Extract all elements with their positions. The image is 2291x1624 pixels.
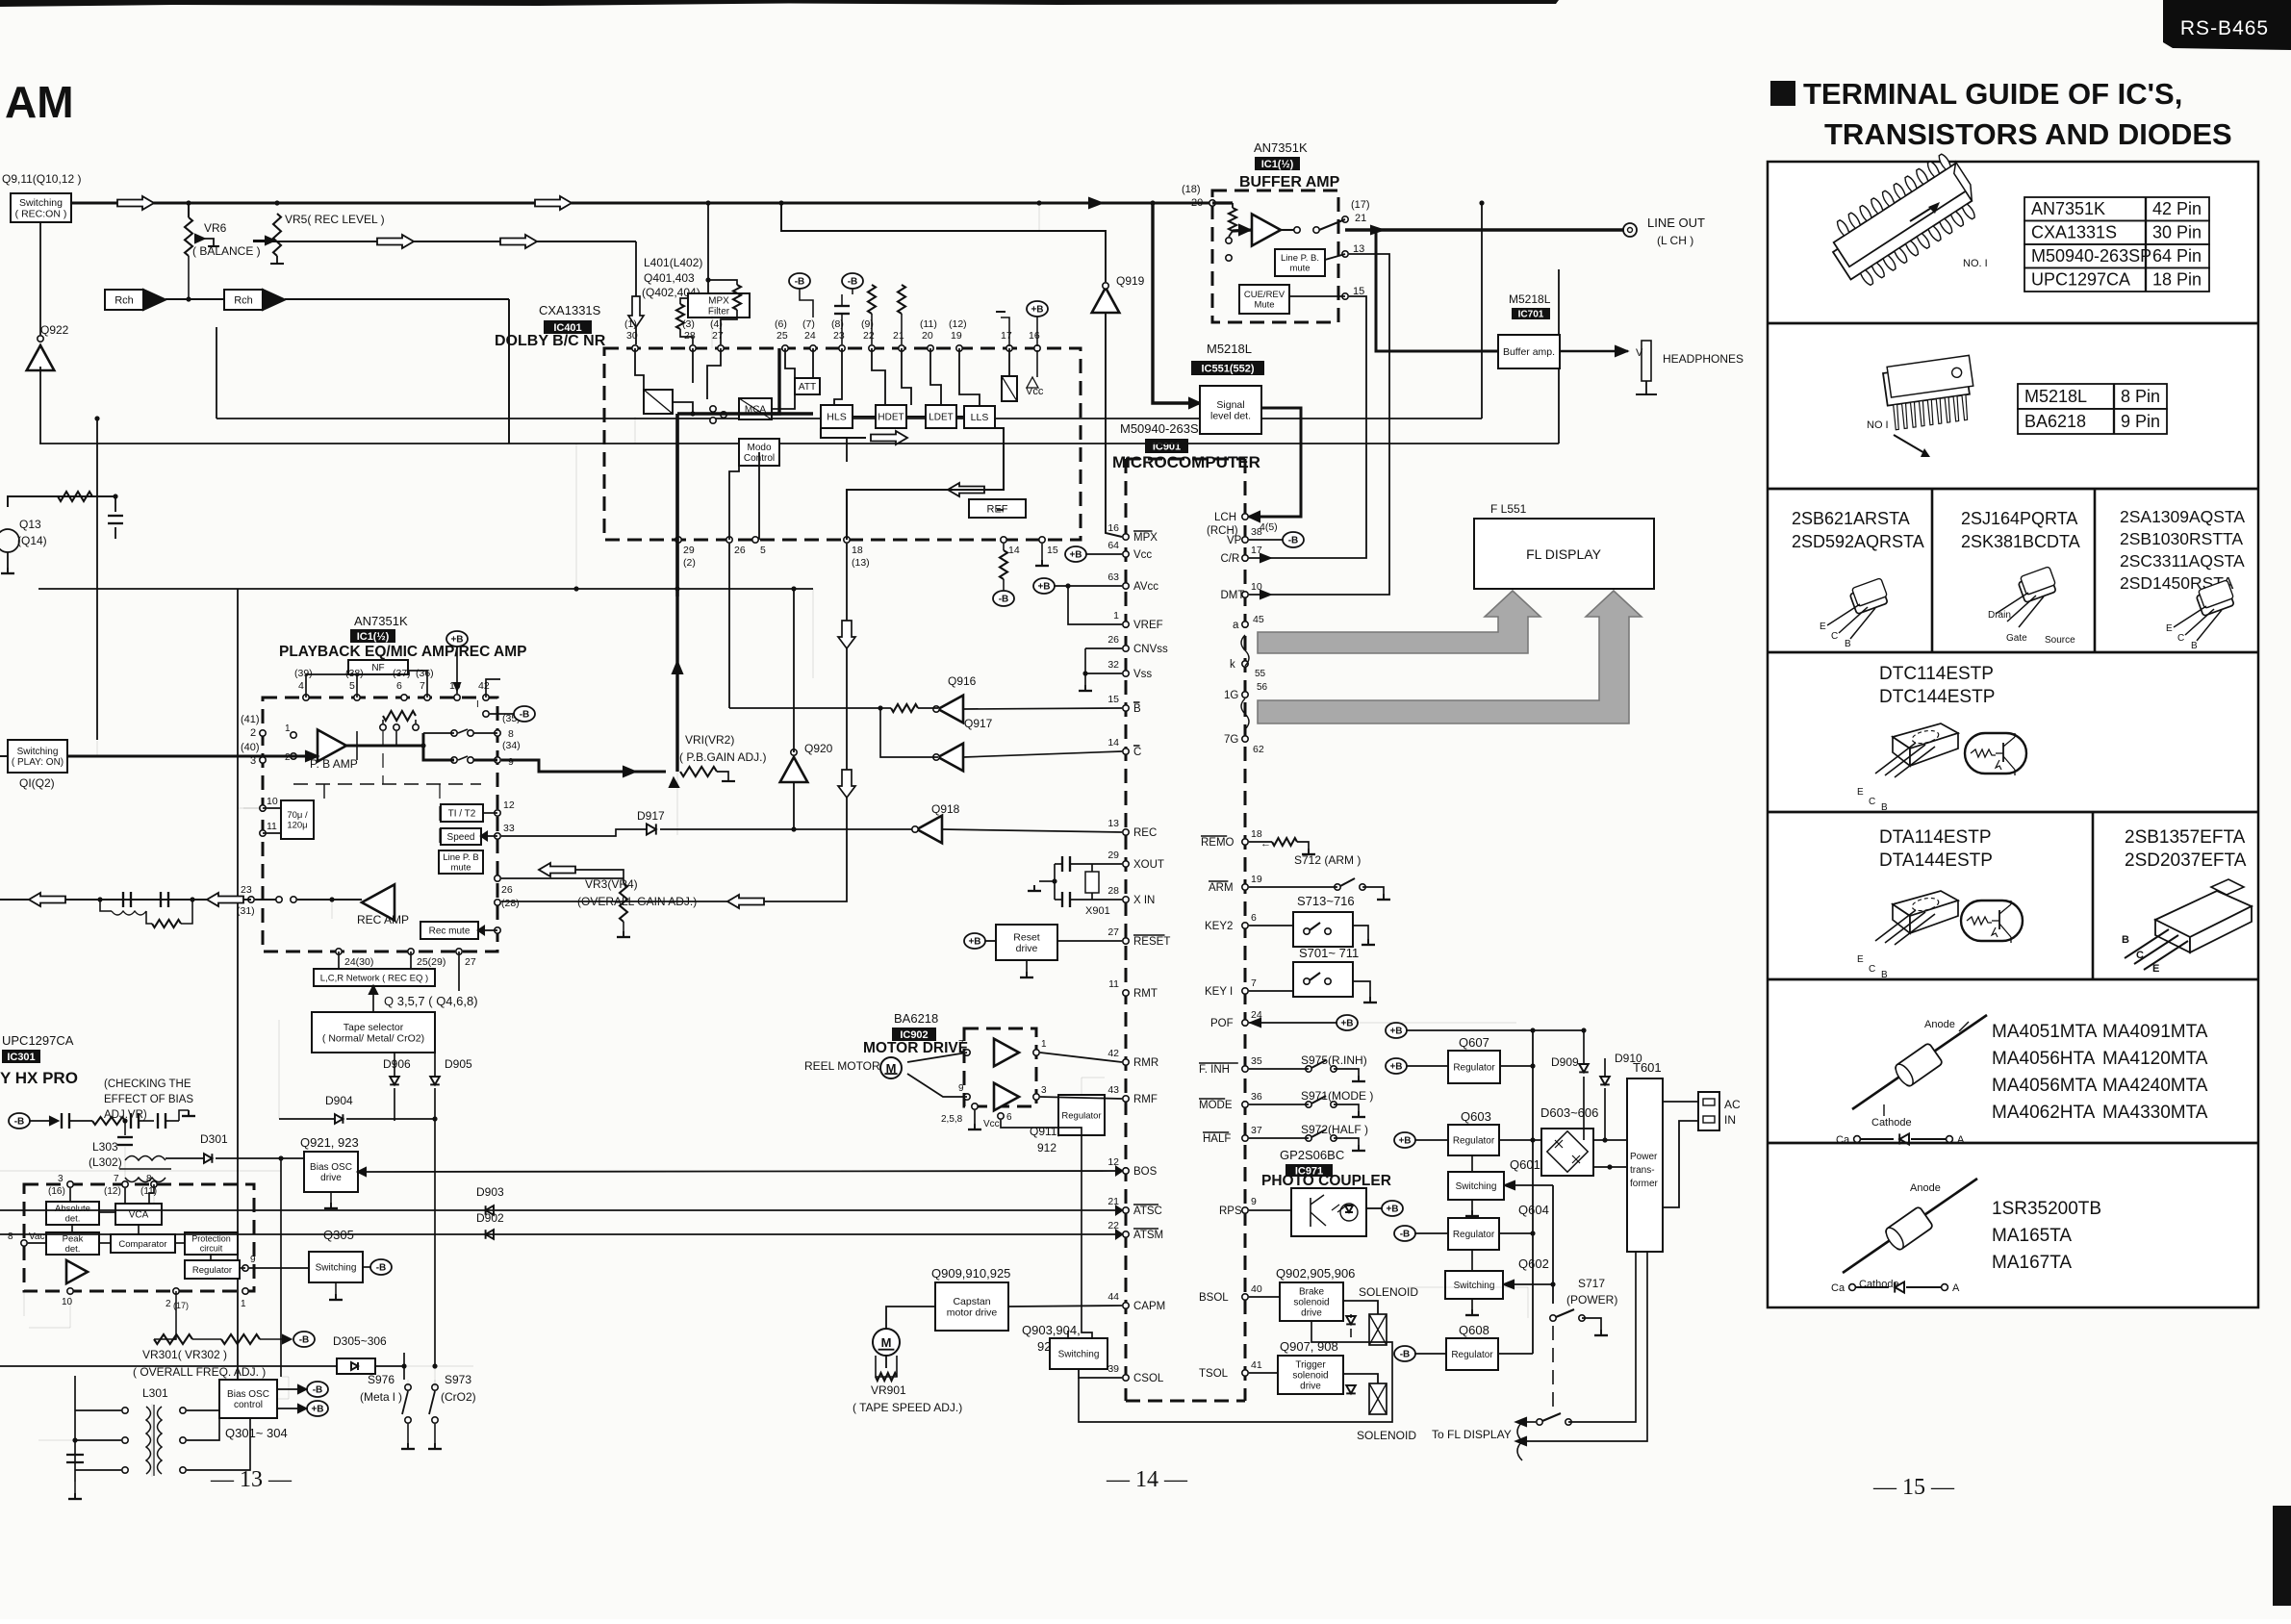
svg-text:CSOL: CSOL bbox=[1133, 1373, 1164, 1384]
svg-text:M5218L: M5218L bbox=[2024, 387, 2087, 406]
svg-text:D905: D905 bbox=[445, 1057, 472, 1071]
svg-text:DTA114ESTP: DTA114ESTP bbox=[1879, 827, 1992, 848]
svg-text:MA4120MTA: MA4120MTA bbox=[2102, 1049, 2208, 1069]
svg-text:Source: Source bbox=[2045, 635, 2075, 646]
svg-text:19: 19 bbox=[1251, 874, 1262, 885]
svg-text:B: B bbox=[1881, 970, 1888, 980]
svg-text:Trigger: Trigger bbox=[1295, 1360, 1326, 1371]
svg-text:Tape selector: Tape selector bbox=[344, 1022, 404, 1033]
svg-text:38: 38 bbox=[1251, 526, 1262, 538]
svg-text:26: 26 bbox=[1107, 634, 1119, 646]
svg-text:DMT: DMT bbox=[1221, 590, 1245, 601]
svg-text:M5218L: M5218L bbox=[1207, 342, 1252, 356]
svg-text:Regulator: Regulator bbox=[1453, 1230, 1495, 1240]
svg-text:MA165TA: MA165TA bbox=[1992, 1226, 2072, 1246]
svg-text:Bias OSC: Bias OSC bbox=[227, 1389, 269, 1400]
svg-text:6: 6 bbox=[1006, 1112, 1012, 1123]
svg-text:S713~716: S713~716 bbox=[1297, 894, 1355, 908]
svg-text:AN7351K: AN7351K bbox=[354, 614, 408, 628]
svg-text:Q921, 923: Q921, 923 bbox=[300, 1135, 359, 1150]
svg-text:18 Pin: 18 Pin bbox=[2152, 270, 2202, 290]
svg-text:9: 9 bbox=[508, 756, 514, 768]
svg-text:8 Pin: 8 Pin bbox=[2121, 387, 2160, 406]
svg-text:X901: X901 bbox=[1085, 905, 1110, 917]
svg-text:+B: +B bbox=[311, 1405, 323, 1415]
svg-text:Switching: Switching bbox=[1456, 1181, 1497, 1192]
svg-text:+B: +B bbox=[1398, 1136, 1411, 1147]
svg-text:(36): (36) bbox=[416, 668, 434, 679]
svg-text:det.: det. bbox=[65, 1214, 81, 1225]
svg-text:IC551(552): IC551(552) bbox=[1201, 363, 1254, 374]
svg-text:-B: -B bbox=[1400, 1230, 1411, 1240]
svg-text:HEADPHONES: HEADPHONES bbox=[1663, 352, 1744, 366]
svg-text:NF: NF bbox=[371, 663, 384, 673]
svg-text:2SB1030RSTTA: 2SB1030RSTTA bbox=[2120, 529, 2243, 548]
svg-text:Power: Power bbox=[1630, 1152, 1658, 1162]
svg-text:1: 1 bbox=[1041, 1039, 1047, 1050]
svg-text:DTC114ESTP: DTC114ESTP bbox=[1879, 664, 1994, 684]
svg-text:S717: S717 bbox=[1578, 1277, 1605, 1290]
svg-text:IC1(½): IC1(½) bbox=[357, 631, 390, 643]
svg-text:RS-B465: RS-B465 bbox=[2180, 17, 2269, 39]
svg-text:20: 20 bbox=[922, 330, 933, 342]
svg-text:E: E bbox=[1820, 622, 1826, 632]
svg-text:(L302): (L302) bbox=[89, 1155, 122, 1169]
svg-text:REMO: REMO bbox=[1201, 837, 1235, 849]
svg-text:-B: -B bbox=[313, 1385, 323, 1396]
svg-text:(38): (38) bbox=[345, 668, 364, 679]
svg-text:VRI(VR2): VRI(VR2) bbox=[685, 733, 734, 747]
svg-text:Q401,403: Q401,403 bbox=[644, 271, 695, 285]
svg-text:13: 13 bbox=[1107, 818, 1119, 829]
svg-text:C: C bbox=[2136, 950, 2144, 961]
svg-text:Q920: Q920 bbox=[804, 742, 833, 755]
svg-text:Drain: Drain bbox=[1988, 610, 2011, 621]
svg-text:B: B bbox=[2191, 641, 2198, 651]
svg-text:RESET: RESET bbox=[1133, 936, 1170, 948]
svg-text:35: 35 bbox=[1251, 1055, 1262, 1067]
svg-text:2: 2 bbox=[250, 727, 256, 739]
svg-text:-B: -B bbox=[1400, 1350, 1411, 1360]
svg-text:Bias OSC: Bias OSC bbox=[310, 1162, 352, 1173]
svg-text:— 14 —: — 14 — bbox=[1106, 1467, 1188, 1492]
svg-text:trans-: trans- bbox=[1630, 1165, 1655, 1176]
svg-text:S975(R.INH): S975(R.INH) bbox=[1301, 1053, 1367, 1067]
svg-text:Q601: Q601 bbox=[1510, 1157, 1540, 1172]
svg-text:28: 28 bbox=[1107, 885, 1119, 897]
svg-text:(3): (3) bbox=[682, 318, 695, 330]
svg-text:M50940-263SP: M50940-263SP bbox=[1120, 421, 1207, 436]
svg-text:Rch: Rch bbox=[234, 294, 253, 306]
svg-text:(13): (13) bbox=[852, 557, 870, 569]
svg-text:44: 44 bbox=[1107, 1291, 1119, 1303]
svg-text:CAPM: CAPM bbox=[1133, 1301, 1165, 1312]
svg-text:6: 6 bbox=[396, 680, 402, 692]
svg-text:D917: D917 bbox=[637, 809, 665, 823]
svg-text:27: 27 bbox=[465, 956, 476, 968]
svg-text:S973: S973 bbox=[445, 1373, 471, 1386]
svg-text:HDET: HDET bbox=[878, 413, 904, 423]
svg-text:7: 7 bbox=[114, 1174, 119, 1184]
svg-text:MA167TA: MA167TA bbox=[1992, 1253, 2072, 1273]
svg-text:120μ: 120μ bbox=[287, 821, 307, 831]
svg-text:MA4051MTA: MA4051MTA bbox=[1992, 1022, 2098, 1042]
svg-text:LDET: LDET bbox=[929, 413, 954, 423]
svg-text:S971(MODE ): S971(MODE ) bbox=[1301, 1089, 1373, 1103]
svg-text:MICROCOMPUTER: MICROCOMPUTER bbox=[1112, 453, 1260, 471]
svg-text:Regulator: Regulator bbox=[1453, 1136, 1495, 1147]
svg-text:BSOL: BSOL bbox=[1199, 1292, 1229, 1304]
svg-text:(18): (18) bbox=[1182, 184, 1201, 195]
svg-text:circuit: circuit bbox=[200, 1244, 223, 1254]
svg-text:SOLENOID: SOLENOID bbox=[1357, 1429, 1416, 1442]
svg-text:S972(HALF ): S972(HALF ) bbox=[1301, 1123, 1368, 1136]
svg-text:drive: drive bbox=[1016, 943, 1038, 954]
svg-text:Gate: Gate bbox=[2006, 633, 2027, 644]
svg-text:10: 10 bbox=[62, 1297, 73, 1307]
svg-text:QI(Q2): QI(Q2) bbox=[19, 776, 55, 790]
svg-text:control: control bbox=[234, 1400, 263, 1410]
svg-text:2SD2037EFTA: 2SD2037EFTA bbox=[2125, 850, 2247, 871]
svg-text:Vcc: Vcc bbox=[1133, 549, 1152, 561]
svg-text:SOLENOID: SOLENOID bbox=[1359, 1285, 1418, 1299]
svg-text:RMF: RMF bbox=[1133, 1094, 1158, 1105]
svg-text:A: A bbox=[1952, 1282, 1960, 1294]
svg-text:MOTOR DRIVE: MOTOR DRIVE bbox=[863, 1040, 968, 1056]
svg-text:CXA1331S: CXA1331S bbox=[539, 303, 601, 317]
svg-text:IC701: IC701 bbox=[1518, 310, 1544, 320]
svg-text:1: 1 bbox=[1113, 610, 1119, 622]
svg-text:E: E bbox=[2152, 963, 2159, 975]
svg-text:20: 20 bbox=[1191, 197, 1203, 209]
svg-text:-B: -B bbox=[999, 595, 1009, 605]
svg-text:26: 26 bbox=[734, 545, 746, 556]
svg-text:Q916: Q916 bbox=[948, 674, 977, 688]
svg-text:2SB1357EFTA: 2SB1357EFTA bbox=[2125, 827, 2246, 848]
svg-text:39: 39 bbox=[1107, 1363, 1119, 1375]
svg-text:former: former bbox=[1630, 1179, 1659, 1189]
svg-text:B: B bbox=[1133, 703, 1141, 715]
svg-text:VR301( VR302 ): VR301( VR302 ) bbox=[142, 1348, 227, 1361]
svg-text:IC1(½): IC1(½) bbox=[1261, 159, 1294, 170]
svg-text:( TAPE SPEED ADJ.): ( TAPE SPEED ADJ.) bbox=[853, 1401, 962, 1414]
svg-text:-B: -B bbox=[299, 1335, 310, 1346]
svg-text:2SC3311AQSTA: 2SC3311AQSTA bbox=[2120, 551, 2245, 571]
svg-text:ATSC: ATSC bbox=[1133, 1205, 1162, 1217]
svg-text:10: 10 bbox=[267, 796, 278, 807]
svg-text:AC: AC bbox=[1724, 1098, 1741, 1111]
svg-text:VR901: VR901 bbox=[871, 1383, 906, 1397]
svg-text:+B: +B bbox=[1340, 1019, 1353, 1029]
svg-text:X IN: X IN bbox=[1133, 895, 1155, 906]
svg-text:Reset: Reset bbox=[1013, 931, 1040, 943]
svg-text:S976: S976 bbox=[368, 1373, 395, 1386]
svg-text:L,C,R Network ( REC EQ ): L,C,R Network ( REC EQ ) bbox=[320, 973, 428, 983]
svg-text:Q903,904,: Q903,904, bbox=[1022, 1323, 1081, 1337]
svg-text:-B: -B bbox=[848, 277, 858, 288]
svg-text:+B: +B bbox=[1037, 582, 1050, 593]
svg-text:(6): (6) bbox=[775, 318, 787, 330]
svg-text:Q602: Q602 bbox=[1518, 1256, 1549, 1271]
svg-text:28: 28 bbox=[684, 330, 696, 342]
svg-text:— 13 —: — 13 — bbox=[210, 1467, 293, 1492]
svg-text:D603~606: D603~606 bbox=[1540, 1105, 1598, 1120]
svg-text:3: 3 bbox=[58, 1174, 64, 1184]
svg-text:+B: +B bbox=[1069, 550, 1082, 561]
svg-text:41: 41 bbox=[1251, 1359, 1262, 1371]
svg-text:D909: D909 bbox=[1551, 1055, 1579, 1069]
svg-text:Q909,910,925: Q909,910,925 bbox=[931, 1266, 1010, 1281]
svg-text:UPC1297CA: UPC1297CA bbox=[2031, 270, 2130, 290]
svg-text:mute: mute bbox=[1289, 264, 1310, 274]
svg-text:( Normal/ Metal/ CrO2): ( Normal/ Metal/ CrO2) bbox=[322, 1032, 424, 1044]
svg-text:Capstan: Capstan bbox=[953, 1296, 990, 1307]
svg-text:2SK381BCDTA: 2SK381BCDTA bbox=[1961, 532, 2080, 551]
svg-text:Switching: Switching bbox=[19, 197, 63, 209]
svg-text:18: 18 bbox=[852, 545, 863, 556]
svg-text:Q608: Q608 bbox=[1459, 1323, 1489, 1337]
svg-text:Absolute: Absolute bbox=[55, 1204, 90, 1214]
svg-text:1G: 1G bbox=[1224, 690, 1238, 701]
svg-text:Protection: Protection bbox=[191, 1234, 231, 1244]
svg-text:solenoid: solenoid bbox=[1292, 1371, 1328, 1382]
svg-text:1SR35200TB: 1SR35200TB bbox=[1992, 1199, 2101, 1219]
svg-text:Q13: Q13 bbox=[19, 518, 41, 531]
svg-text:(12): (12) bbox=[949, 318, 967, 330]
svg-text:CUE/REV: CUE/REV bbox=[1244, 290, 1286, 300]
svg-text:17: 17 bbox=[1001, 330, 1012, 342]
svg-text:RMR: RMR bbox=[1133, 1057, 1158, 1069]
svg-text:MA4056MTA: MA4056MTA bbox=[1992, 1076, 2098, 1096]
svg-text:BA6218: BA6218 bbox=[894, 1011, 938, 1026]
svg-text:37: 37 bbox=[1251, 1125, 1262, 1136]
svg-text:RPS: RPS bbox=[1219, 1205, 1242, 1217]
svg-text:M50940-263SP: M50940-263SP bbox=[2031, 246, 2151, 266]
svg-text:12: 12 bbox=[503, 799, 515, 811]
svg-text:2,5,8: 2,5,8 bbox=[941, 1114, 963, 1125]
svg-text:Q919: Q919 bbox=[1116, 274, 1145, 288]
svg-text:4(5): 4(5) bbox=[1260, 521, 1278, 533]
svg-text:42: 42 bbox=[478, 680, 490, 692]
svg-text:DTA144ESTP: DTA144ESTP bbox=[1879, 850, 1993, 871]
svg-text:C/R: C/R bbox=[1221, 553, 1240, 565]
svg-text:30 Pin: 30 Pin bbox=[2152, 223, 2202, 242]
svg-text:LINE OUT: LINE OUT bbox=[1647, 216, 1705, 230]
svg-text:(17): (17) bbox=[1351, 199, 1370, 211]
svg-text:IN: IN bbox=[1724, 1113, 1736, 1127]
svg-text:Speed: Speed bbox=[447, 832, 475, 843]
svg-text:29: 29 bbox=[1107, 850, 1119, 861]
svg-text:22: 22 bbox=[1107, 1220, 1119, 1231]
svg-text:Q301~ 304: Q301~ 304 bbox=[225, 1426, 288, 1440]
svg-text:Regulator: Regulator bbox=[1061, 1110, 1101, 1121]
svg-text:POF: POF bbox=[1210, 1018, 1234, 1029]
svg-text:XOUT: XOUT bbox=[1133, 859, 1164, 871]
svg-text:EFFECT OF BIAS: EFFECT OF BIAS bbox=[104, 1094, 193, 1105]
svg-text:Peak: Peak bbox=[63, 1234, 84, 1245]
svg-text:NO. I: NO. I bbox=[1963, 258, 1988, 269]
svg-text:TRANSISTORS AND DIODES: TRANSISTORS AND DIODES bbox=[1824, 117, 2232, 151]
svg-text:40: 40 bbox=[1251, 1283, 1262, 1295]
svg-text:VR6: VR6 bbox=[204, 221, 227, 235]
svg-text:19: 19 bbox=[951, 330, 962, 342]
svg-text:Vac: Vac bbox=[29, 1231, 45, 1242]
svg-text:Q604: Q604 bbox=[1518, 1203, 1549, 1217]
svg-text:+B: +B bbox=[1031, 305, 1043, 316]
svg-text:Y HX PRO: Y HX PRO bbox=[0, 1069, 78, 1087]
svg-text:( P.B.GAIN ADJ.): ( P.B.GAIN ADJ.) bbox=[679, 750, 766, 764]
svg-text:70μ /: 70μ / bbox=[287, 810, 308, 821]
svg-text:8: 8 bbox=[508, 728, 514, 740]
svg-text:55: 55 bbox=[1255, 669, 1266, 679]
svg-text:AN7351K: AN7351K bbox=[1254, 140, 1308, 155]
svg-text:TSOL: TSOL bbox=[1199, 1368, 1229, 1380]
svg-text:RMT: RMT bbox=[1133, 988, 1158, 1000]
svg-text:VP: VP bbox=[1227, 535, 1242, 546]
svg-text:Modo: Modo bbox=[747, 443, 771, 453]
svg-text:LLS: LLS bbox=[971, 412, 989, 423]
svg-text:16: 16 bbox=[1029, 330, 1040, 342]
svg-text:-B: -B bbox=[1288, 536, 1299, 546]
svg-text:( PLAY: ON): ( PLAY: ON) bbox=[12, 757, 64, 768]
svg-text:V: V bbox=[1636, 347, 1643, 359]
svg-text:Q922: Q922 bbox=[40, 323, 69, 337]
svg-text:PLAYBACK EQ/MIC AMP/REC AMP: PLAYBACK EQ/MIC AMP/REC AMP bbox=[279, 644, 527, 660]
svg-text:HALF: HALF bbox=[1203, 1133, 1231, 1145]
svg-text:(POWER): (POWER) bbox=[1566, 1293, 1617, 1307]
svg-text:VCA: VCA bbox=[129, 1210, 149, 1221]
svg-text:Switching: Switching bbox=[1058, 1350, 1100, 1360]
svg-text:←: ← bbox=[1260, 838, 1271, 850]
svg-text:E: E bbox=[2166, 623, 2173, 634]
svg-text:AVcc: AVcc bbox=[1133, 581, 1158, 593]
svg-text:11: 11 bbox=[1108, 978, 1119, 990]
svg-text:F. INH: F. INH bbox=[1199, 1064, 1230, 1076]
svg-text:24: 24 bbox=[804, 330, 816, 342]
svg-text:C: C bbox=[2177, 633, 2184, 644]
svg-text:B: B bbox=[2122, 934, 2129, 946]
svg-text:26: 26 bbox=[501, 884, 513, 896]
svg-text:(11): (11) bbox=[920, 318, 937, 330]
svg-text:Ca: Ca bbox=[1836, 1134, 1850, 1146]
svg-text:MA4056HTA: MA4056HTA bbox=[1992, 1049, 2096, 1069]
svg-text:GP2S06BC: GP2S06BC bbox=[1280, 1148, 1344, 1162]
svg-text:To FL DISPLAY: To FL DISPLAY bbox=[1432, 1428, 1512, 1441]
svg-text:Brake: Brake bbox=[1299, 1287, 1325, 1298]
svg-text:25(29): 25(29) bbox=[417, 956, 445, 968]
svg-text:9: 9 bbox=[250, 1255, 256, 1265]
svg-text:(7): (7) bbox=[802, 318, 815, 330]
svg-text:27: 27 bbox=[712, 330, 724, 342]
svg-text:(CHECKING THE: (CHECKING THE bbox=[104, 1078, 191, 1090]
svg-text:KEY I: KEY I bbox=[1205, 986, 1233, 998]
svg-text:Cathode: Cathode bbox=[1859, 1279, 1899, 1290]
svg-text:(40): (40) bbox=[241, 742, 260, 753]
svg-text:15: 15 bbox=[1047, 545, 1058, 556]
svg-text:AN7351K: AN7351K bbox=[2031, 199, 2105, 218]
svg-text:(Q14): (Q14) bbox=[17, 534, 47, 547]
svg-text:12: 12 bbox=[1107, 1156, 1119, 1168]
svg-text:2SD592AQRSTA: 2SD592AQRSTA bbox=[1792, 532, 1924, 551]
svg-text:IC301: IC301 bbox=[7, 1052, 35, 1063]
svg-text:14: 14 bbox=[1107, 737, 1119, 749]
svg-text:Rch: Rch bbox=[115, 294, 134, 306]
svg-text:S701~ 711: S701~ 711 bbox=[1299, 946, 1359, 960]
svg-text:-B: -B bbox=[14, 1117, 25, 1128]
svg-text:-B: -B bbox=[376, 1263, 387, 1274]
svg-text:(2): (2) bbox=[683, 557, 696, 569]
svg-text:M5218L: M5218L bbox=[1509, 292, 1551, 306]
svg-text:6: 6 bbox=[1251, 912, 1257, 924]
svg-text:drive: drive bbox=[1301, 1308, 1322, 1319]
svg-text:A: A bbox=[1957, 1134, 1965, 1146]
svg-text:ATSM: ATSM bbox=[1133, 1230, 1163, 1241]
svg-text:Regulator: Regulator bbox=[1451, 1350, 1493, 1360]
svg-text:E: E bbox=[1857, 787, 1864, 798]
svg-text:E: E bbox=[1857, 954, 1864, 965]
svg-text:36: 36 bbox=[1251, 1091, 1262, 1103]
svg-text:Switching: Switching bbox=[17, 747, 59, 757]
svg-text:(12): (12) bbox=[104, 1186, 121, 1197]
svg-text:( OVERALL FREQ. ADJ. ): ( OVERALL FREQ. ADJ. ) bbox=[133, 1365, 266, 1379]
svg-text:2SA1309AQSTA: 2SA1309AQSTA bbox=[2120, 507, 2245, 526]
svg-text:Q918: Q918 bbox=[931, 802, 960, 816]
svg-text:43: 43 bbox=[1107, 1084, 1119, 1096]
svg-text:( REC:ON ): ( REC:ON ) bbox=[15, 208, 67, 219]
svg-text:(Meta l ): (Meta l ) bbox=[360, 1390, 402, 1404]
svg-text:(4): (4) bbox=[710, 318, 723, 330]
svg-text:Rec mute: Rec mute bbox=[429, 926, 471, 937]
svg-text:7G: 7G bbox=[1224, 734, 1238, 746]
svg-text:MPX: MPX bbox=[1133, 532, 1158, 544]
svg-text:Switching: Switching bbox=[316, 1263, 357, 1274]
svg-text:DTC144ESTP: DTC144ESTP bbox=[1879, 687, 1995, 707]
svg-text:5: 5 bbox=[760, 545, 766, 556]
svg-text:Mute: Mute bbox=[1254, 300, 1274, 311]
svg-text:PHOTO COUPLER: PHOTO COUPLER bbox=[1261, 1173, 1391, 1189]
svg-text:14: 14 bbox=[1008, 545, 1020, 556]
svg-text:Vcc: Vcc bbox=[983, 1119, 1000, 1129]
svg-text:Regulator: Regulator bbox=[192, 1265, 232, 1276]
svg-text:Anode: Anode bbox=[1924, 1019, 1955, 1030]
svg-text:— 15 —: — 15 — bbox=[1872, 1475, 1955, 1500]
svg-text:HLS: HLS bbox=[827, 412, 846, 423]
svg-text:drive: drive bbox=[1300, 1382, 1321, 1392]
svg-text:(28): (28) bbox=[501, 898, 520, 909]
svg-text:k: k bbox=[1230, 659, 1235, 671]
svg-text:Vss: Vss bbox=[1133, 669, 1152, 680]
svg-text:7: 7 bbox=[958, 1039, 964, 1050]
svg-text:P. B AMP: P. B AMP bbox=[310, 757, 358, 771]
svg-text:L301: L301 bbox=[142, 1386, 168, 1400]
svg-text:mute: mute bbox=[450, 863, 471, 874]
svg-text:(1): (1) bbox=[624, 318, 637, 330]
svg-text:REC AMP: REC AMP bbox=[357, 913, 409, 926]
svg-text:M: M bbox=[881, 1335, 892, 1350]
svg-text:Line P. B: Line P. B bbox=[443, 852, 478, 863]
svg-text:BOS: BOS bbox=[1133, 1166, 1158, 1178]
svg-text:2: 2 bbox=[165, 1299, 171, 1309]
svg-text:D301: D301 bbox=[200, 1132, 228, 1146]
svg-text:CNVss: CNVss bbox=[1133, 644, 1168, 655]
svg-text:VR5( REC LEVEL ): VR5( REC LEVEL ) bbox=[285, 213, 385, 226]
svg-text:VR3(VR4): VR3(VR4) bbox=[585, 877, 638, 891]
svg-text:64: 64 bbox=[1107, 540, 1119, 551]
svg-text:9: 9 bbox=[1251, 1196, 1257, 1207]
svg-text:(31): (31) bbox=[237, 905, 255, 917]
svg-text:Ca: Ca bbox=[1831, 1282, 1846, 1294]
svg-text:ADJ.VR): ADJ.VR) bbox=[104, 1109, 147, 1121]
